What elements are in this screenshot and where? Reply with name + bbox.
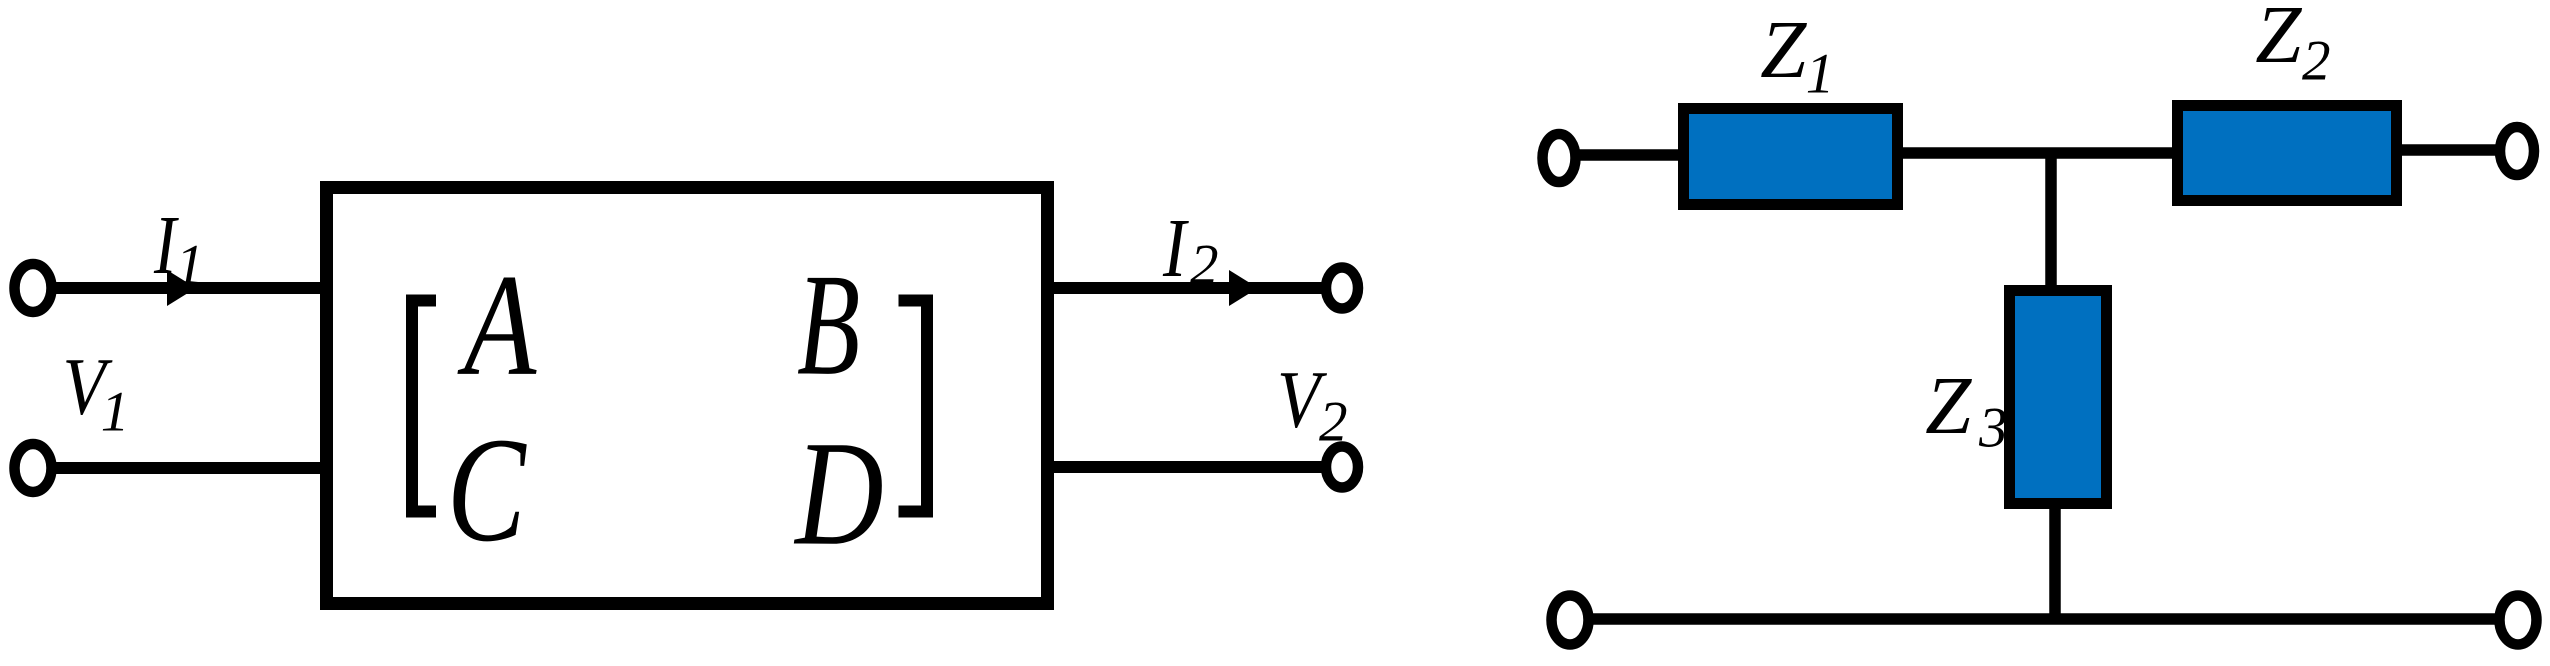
wire output bottom	[1052, 461, 1322, 473]
svg-text:1: 1	[1806, 43, 1835, 106]
impedance Z1	[1684, 109, 1898, 205]
node: junction to shunt branch	[2045, 153, 2057, 291]
svg-text:2: 2	[2302, 30, 2331, 93]
svg-text:Z: Z	[1925, 359, 1972, 451]
bottom rail wire	[1592, 613, 2497, 625]
svg-text:Z: Z	[2255, 0, 2302, 80]
svg-text:2: 2	[1190, 234, 1219, 297]
svg-text:3: 3	[1978, 397, 2008, 460]
terminal in top	[1543, 134, 1576, 182]
matrix right bracket	[899, 301, 928, 512]
current arrow I2	[1229, 270, 1258, 306]
impedance Z2	[2178, 106, 2397, 201]
svg-text:A: A	[457, 244, 537, 405]
terminal port 1 bottom	[15, 444, 52, 492]
wire to Z1	[1577, 149, 1684, 161]
wire Z3 to bottom rail	[2049, 503, 2061, 619]
svg-text:1: 1	[101, 381, 130, 444]
current arrow I1	[167, 270, 196, 306]
wire output top	[1052, 282, 1322, 294]
terminal port 1 top (input)	[15, 264, 52, 312]
svg-text:B: B	[797, 244, 860, 406]
terminal out bottom	[2500, 596, 2537, 645]
svg-text:I: I	[1162, 201, 1189, 295]
svg-text:D: D	[793, 410, 883, 576]
wire Z2 to output	[2397, 144, 2500, 156]
impedance Z3 (shunt)	[2010, 291, 2107, 504]
wire Z1 to Z2	[1898, 147, 2178, 159]
terminal out top	[2500, 127, 2534, 175]
svg-text:Z: Z	[1760, 3, 1807, 95]
svg-text:C: C	[447, 408, 527, 574]
matrix left bracket	[412, 301, 436, 512]
two-port box	[327, 188, 1048, 604]
wire input bottom	[52, 462, 333, 474]
svg-text:1: 1	[176, 234, 205, 297]
terminal port 2 top (output)	[1326, 268, 1358, 309]
wire input top	[52, 282, 333, 294]
terminal in bottom	[1552, 596, 1589, 645]
terminal port 2 bottom	[1326, 447, 1358, 488]
